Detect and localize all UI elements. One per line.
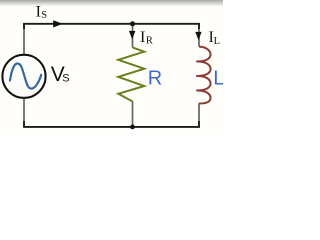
svg-text:R: R [148,67,162,89]
svg-text:I: I [140,29,145,46]
svg-text:S: S [62,73,69,85]
svg-text:R: R [146,36,153,47]
svg-text:L: L [214,36,220,47]
svg-text:I: I [36,3,41,20]
svg-text:S: S [41,10,47,21]
svg-text:L: L [213,68,223,90]
